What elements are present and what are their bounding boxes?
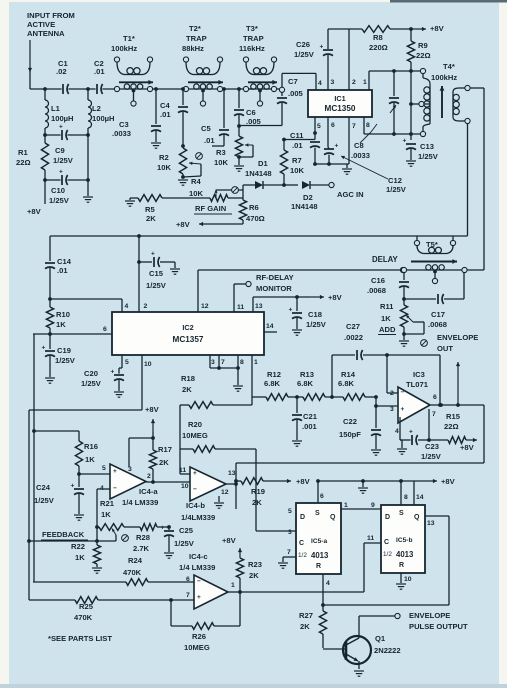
svg-text:L1: L1 [51, 104, 61, 113]
svg-text:IC5-b: IC5-b [396, 537, 412, 544]
svg-text:.01: .01 [292, 141, 303, 150]
svg-text:Q: Q [414, 514, 420, 521]
svg-text:ADD: ADD [379, 325, 396, 334]
svg-text:22Ω: 22Ω [16, 158, 31, 167]
svg-text:12: 12 [221, 489, 229, 496]
svg-text:2N2222: 2N2222 [374, 646, 401, 655]
svg-text:10: 10 [404, 576, 412, 583]
svg-text:T2*: T2* [189, 24, 201, 33]
svg-text:1/25V: 1/25V [294, 50, 315, 59]
svg-text:ENVELOPE: ENVELOPE [437, 333, 478, 342]
svg-text:R: R [316, 563, 321, 570]
svg-text:R4: R4 [191, 177, 201, 186]
svg-text:10: 10 [181, 483, 189, 490]
svg-text:C19: C19 [57, 346, 71, 355]
svg-text:.005: .005 [288, 89, 304, 98]
svg-text:1K: 1K [85, 455, 95, 464]
svg-text:3: 3 [331, 79, 335, 86]
svg-text:1/4 LM339: 1/4 LM339 [122, 498, 158, 507]
svg-text:4: 4 [395, 428, 399, 435]
svg-text:R13: R13 [300, 370, 314, 379]
svg-text:C21: C21 [303, 412, 318, 421]
svg-text:1/25V: 1/25V [174, 539, 195, 548]
svg-text:2: 2 [390, 390, 394, 397]
svg-text:RF-DELAY: RF-DELAY [256, 273, 294, 282]
svg-text:C5: C5 [201, 124, 211, 133]
svg-text:7: 7 [221, 359, 225, 366]
svg-text:R19: R19 [251, 487, 265, 496]
svg-text:+: + [197, 594, 201, 601]
svg-text:−: − [193, 486, 197, 493]
svg-text:.02: .02 [56, 67, 67, 76]
svg-text:4: 4 [326, 580, 330, 587]
svg-text:IC1: IC1 [334, 94, 345, 103]
svg-text:.0033: .0033 [351, 151, 370, 160]
svg-text:+8V: +8V [441, 477, 456, 486]
svg-text:.0068: .0068 [428, 320, 447, 329]
svg-text:8: 8 [404, 494, 408, 501]
svg-text:+: + [401, 406, 405, 413]
svg-text:5: 5 [102, 465, 106, 472]
svg-text:+: + [409, 429, 413, 436]
svg-text:+: + [151, 251, 155, 258]
svg-text:7: 7 [287, 549, 291, 556]
svg-text:11: 11 [237, 304, 244, 311]
svg-text:C25: C25 [179, 526, 194, 535]
svg-text:R24: R24 [128, 556, 143, 565]
svg-text:TRAP: TRAP [243, 34, 264, 43]
svg-text:R28: R28 [136, 533, 150, 542]
svg-text:116kHz: 116kHz [239, 44, 265, 53]
svg-text:R27: R27 [299, 611, 313, 620]
svg-text:22Ω: 22Ω [416, 51, 431, 60]
svg-text:−: − [197, 578, 201, 585]
svg-text:*SEE PARTS LIST: *SEE PARTS LIST [48, 634, 112, 643]
svg-text:.0068: .0068 [367, 286, 386, 295]
svg-text:R1: R1 [18, 148, 28, 157]
svg-text:+: + [111, 369, 115, 376]
svg-text:R11: R11 [380, 302, 394, 311]
svg-text:D: D [300, 514, 305, 521]
svg-text:2K: 2K [300, 622, 310, 631]
svg-text:DELAY: DELAY [372, 255, 399, 264]
svg-text:C26: C26 [296, 40, 310, 49]
svg-text:S: S [315, 510, 320, 517]
svg-text:C11: C11 [290, 131, 304, 140]
svg-text:C9: C9 [55, 146, 65, 155]
svg-text:+: + [59, 124, 63, 131]
svg-text:6: 6 [320, 493, 324, 500]
svg-text:10MEG: 10MEG [184, 643, 210, 652]
svg-text:C: C [384, 539, 389, 546]
svg-text:ACTIVE: ACTIVE [27, 20, 55, 29]
svg-text:R7: R7 [292, 156, 302, 165]
svg-text:470K: 470K [123, 568, 142, 577]
svg-text:1/25V: 1/25V [53, 156, 74, 165]
svg-text:R20: R20 [188, 420, 202, 429]
svg-text:C: C [299, 540, 304, 547]
svg-text:6: 6 [331, 122, 335, 129]
svg-text:+: + [42, 345, 46, 352]
svg-text:3: 3 [128, 466, 132, 473]
svg-text:2.7K: 2.7K [133, 544, 150, 553]
svg-text:−: − [401, 389, 405, 396]
svg-text:D: D [385, 514, 390, 521]
svg-text:R: R [399, 562, 404, 569]
svg-text:R25: R25 [79, 602, 94, 611]
svg-text:12: 12 [201, 303, 209, 310]
svg-text:5: 5 [125, 359, 129, 366]
svg-text:.01: .01 [160, 110, 171, 119]
svg-text:C12: C12 [388, 176, 402, 185]
svg-text:8: 8 [240, 359, 244, 366]
svg-text:R15: R15 [446, 412, 461, 421]
svg-text:C4: C4 [160, 101, 170, 110]
svg-text:150pF: 150pF [339, 430, 361, 439]
svg-text:10K: 10K [189, 189, 203, 198]
svg-text:R10: R10 [56, 310, 70, 319]
svg-text:2: 2 [352, 79, 356, 86]
svg-text:1K: 1K [75, 553, 85, 562]
svg-text:INPUT FROM: INPUT FROM [27, 11, 75, 20]
svg-text:1: 1 [363, 79, 367, 86]
svg-text:+: + [193, 470, 197, 477]
svg-text:MC1350: MC1350 [325, 104, 356, 113]
svg-text:6: 6 [186, 576, 190, 583]
svg-text:RF GAIN: RF GAIN [195, 204, 226, 213]
svg-text:+8V: +8V [27, 207, 42, 216]
svg-text:+8V: +8V [460, 443, 475, 452]
svg-text:2: 2 [147, 473, 151, 480]
svg-text:2K: 2K [249, 571, 259, 580]
svg-text:.001: .001 [302, 422, 318, 431]
svg-text:+: + [71, 483, 75, 490]
svg-text:1/2: 1/2 [298, 552, 307, 559]
svg-text:C18: C18 [308, 310, 322, 319]
svg-text:T4*: T4* [443, 62, 455, 71]
svg-text:R23: R23 [248, 560, 262, 569]
svg-text:TRAP: TRAP [186, 34, 207, 43]
svg-text:+8V: +8V [145, 405, 160, 414]
svg-text:R16: R16 [84, 442, 98, 451]
svg-text:.005: .005 [246, 117, 262, 126]
svg-text:IC3: IC3 [413, 370, 425, 379]
svg-text:PULSE OUTPUT: PULSE OUTPUT [409, 622, 468, 631]
svg-text:100kHz: 100kHz [111, 44, 137, 53]
svg-text:4013: 4013 [396, 550, 414, 559]
svg-text:3: 3 [288, 529, 292, 536]
svg-text:1: 1 [254, 359, 258, 366]
svg-text:IC4-b: IC4-b [186, 501, 205, 510]
svg-text:4: 4 [125, 303, 129, 310]
svg-text:1: 1 [231, 582, 235, 589]
svg-text:14: 14 [416, 494, 424, 501]
svg-text:2K: 2K [252, 498, 262, 507]
svg-text:13: 13 [255, 303, 263, 310]
svg-text:470Ω: 470Ω [246, 214, 265, 223]
svg-text:6: 6 [433, 394, 437, 401]
svg-text:100µH: 100µH [92, 114, 115, 123]
svg-text:1/25V: 1/25V [146, 281, 167, 290]
svg-text:OUT: OUT [437, 344, 453, 353]
svg-text:+: + [320, 44, 324, 51]
svg-text:14: 14 [266, 323, 274, 330]
svg-text:C15: C15 [149, 269, 164, 278]
svg-text:Q1: Q1 [375, 634, 386, 643]
svg-text:1/25V: 1/25V [386, 185, 407, 194]
svg-text:4: 4 [318, 80, 322, 87]
svg-text:1/25V: 1/25V [81, 379, 102, 388]
svg-text:13: 13 [228, 470, 236, 477]
svg-text:1/25V: 1/25V [418, 152, 439, 161]
svg-text:3: 3 [211, 359, 215, 366]
svg-text:−: − [113, 485, 117, 492]
svg-text:4013: 4013 [311, 551, 329, 560]
svg-text:7: 7 [432, 411, 436, 418]
svg-text:1K: 1K [381, 314, 391, 323]
svg-text:8: 8 [366, 122, 370, 129]
svg-text:C17: C17 [431, 310, 445, 319]
svg-text:9: 9 [371, 502, 375, 509]
svg-text:R12: R12 [267, 370, 281, 379]
svg-text:C3: C3 [119, 120, 129, 129]
svg-text:1/25V: 1/25V [306, 320, 327, 329]
svg-text:T1*: T1* [123, 34, 135, 43]
svg-text:D2: D2 [303, 193, 313, 202]
svg-text:IC4-a: IC4-a [139, 487, 158, 496]
svg-text:R14: R14 [341, 370, 356, 379]
svg-text:470K: 470K [74, 613, 93, 622]
svg-text:C23: C23 [425, 442, 439, 451]
svg-text:6.8K: 6.8K [264, 379, 281, 388]
svg-text:1/4LM339: 1/4LM339 [181, 513, 215, 522]
svg-text:ENVELOPE: ENVELOPE [409, 611, 450, 620]
svg-text:R3: R3 [216, 148, 226, 157]
svg-text:R21: R21 [100, 499, 115, 508]
svg-text:1/2: 1/2 [383, 551, 392, 558]
svg-text:1/4 LM339: 1/4 LM339 [179, 563, 215, 572]
svg-text:MONITOR: MONITOR [256, 284, 292, 293]
svg-text:2: 2 [144, 303, 148, 310]
svg-text:+: + [113, 468, 117, 475]
svg-text:+: + [289, 307, 293, 314]
svg-text:1/25V: 1/25V [421, 452, 442, 461]
svg-text:10K: 10K [214, 158, 228, 167]
svg-text:S: S [399, 510, 404, 517]
svg-text:+: + [335, 143, 339, 150]
svg-text:D1: D1 [258, 159, 268, 168]
svg-text:L2: L2 [92, 104, 101, 113]
svg-text:ANTENNA: ANTENNA [27, 29, 65, 38]
svg-text:1N4148: 1N4148 [291, 202, 318, 211]
svg-text:11: 11 [367, 535, 374, 542]
svg-text:R8: R8 [373, 33, 383, 42]
svg-text:88kHz: 88kHz [182, 44, 204, 53]
svg-text:6.8K: 6.8K [297, 379, 314, 388]
svg-text:C14: C14 [57, 257, 72, 266]
svg-text:R26: R26 [192, 632, 206, 641]
svg-text:T3*: T3* [246, 24, 258, 33]
svg-text:R18: R18 [181, 374, 195, 383]
svg-text:+8V: +8V [296, 477, 311, 486]
svg-text:10: 10 [144, 361, 152, 368]
svg-text:R6: R6 [249, 203, 259, 212]
svg-text:10K: 10K [157, 163, 171, 172]
svg-text:C6: C6 [246, 108, 256, 117]
svg-text:1/25V: 1/25V [49, 196, 70, 205]
svg-text:5: 5 [288, 508, 292, 515]
svg-text:AGC IN: AGC IN [337, 190, 364, 199]
svg-text:2K: 2K [159, 458, 169, 467]
svg-text:11: 11 [179, 467, 186, 474]
svg-text:+: + [59, 169, 63, 176]
svg-text:C10: C10 [51, 186, 65, 195]
svg-text:C22: C22 [343, 417, 357, 426]
svg-text:+: + [161, 525, 165, 532]
svg-text:1K: 1K [101, 510, 111, 519]
svg-text:C24: C24 [36, 483, 51, 492]
svg-text:1/25V: 1/25V [34, 496, 55, 505]
svg-text:Q: Q [330, 514, 336, 521]
svg-text:10MEG: 10MEG [182, 431, 208, 440]
svg-text:IC4-c: IC4-c [189, 552, 208, 561]
svg-text:2K: 2K [182, 385, 192, 394]
svg-text:R9: R9 [418, 41, 428, 50]
svg-text:TL071: TL071 [406, 380, 429, 389]
svg-text:+: + [403, 138, 407, 145]
svg-text:C13: C13 [420, 142, 434, 151]
svg-text:C7: C7 [288, 77, 298, 86]
svg-text:2K: 2K [146, 214, 156, 223]
svg-text:7: 7 [186, 592, 190, 599]
svg-text:+8V: +8V [328, 293, 343, 302]
svg-text:10K: 10K [290, 166, 304, 175]
svg-text:.01: .01 [94, 67, 105, 76]
svg-text:R5: R5 [145, 205, 155, 214]
svg-text:13: 13 [427, 520, 435, 527]
svg-text:1: 1 [344, 502, 348, 509]
svg-text:FEEDBACK: FEEDBACK [42, 530, 85, 539]
svg-text:.0022: .0022 [344, 333, 363, 342]
svg-text:6.8K: 6.8K [338, 379, 355, 388]
svg-text:.0033: .0033 [112, 129, 131, 138]
svg-text:1N4148: 1N4148 [245, 169, 272, 178]
svg-text:.01: .01 [57, 266, 68, 275]
svg-text:6: 6 [103, 326, 107, 333]
svg-text:+8V: +8V [176, 220, 191, 229]
svg-text:C8: C8 [354, 141, 364, 150]
svg-text:7: 7 [352, 123, 356, 130]
svg-text:R17: R17 [158, 445, 172, 454]
svg-text:22Ω: 22Ω [444, 422, 459, 431]
svg-text:R2: R2 [159, 153, 169, 162]
svg-text:100kHz: 100kHz [431, 73, 457, 82]
svg-text:IC2: IC2 [182, 323, 193, 332]
svg-text:R22: R22 [71, 542, 85, 551]
svg-text:C20: C20 [84, 369, 98, 378]
svg-text:C16: C16 [371, 276, 385, 285]
svg-text:3: 3 [390, 406, 394, 413]
svg-text:220Ω: 220Ω [369, 43, 388, 52]
svg-text:MC1357: MC1357 [173, 335, 204, 344]
svg-text:1K: 1K [56, 320, 66, 329]
svg-text:1/25V: 1/25V [55, 356, 76, 365]
svg-text:+8V: +8V [222, 536, 237, 545]
svg-text:100µH: 100µH [51, 114, 74, 123]
svg-text:.01: .01 [204, 136, 215, 145]
svg-text:5: 5 [317, 123, 321, 130]
svg-text:C27: C27 [346, 322, 360, 331]
svg-text:IC5-a: IC5-a [311, 538, 327, 545]
svg-text:+8V: +8V [430, 24, 445, 33]
